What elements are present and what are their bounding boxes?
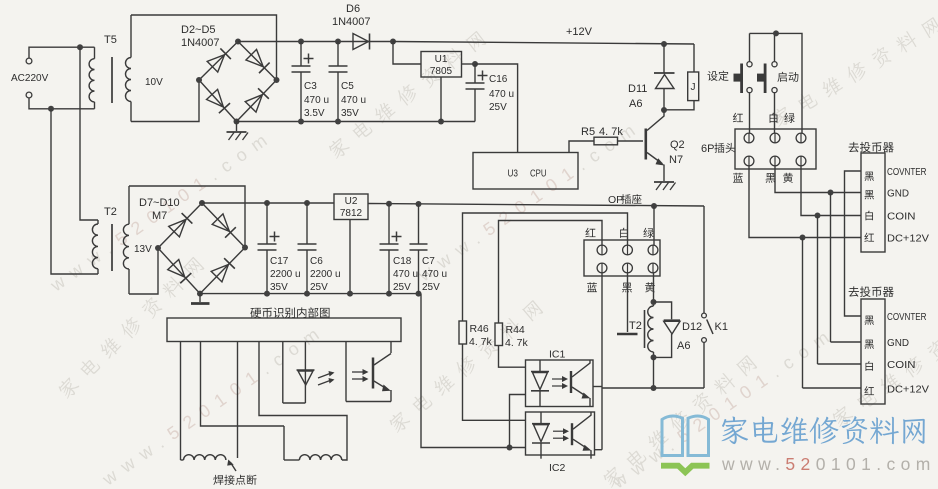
capacitor C18: [380, 204, 419, 294]
wire buttons top: [750, 33, 803, 133]
wire AC L drop: [80, 47, 98, 220]
wire U1 ground: [440, 77, 442, 122]
node C6 top: [304, 200, 310, 206]
node C17 top: [264, 200, 270, 206]
wire OP white to R46: [463, 213, 628, 321]
svg-text:C6: C6: [310, 256, 323, 267]
transformer T5: [89, 15, 163, 122]
wire START to pin white: [774, 93, 776, 134]
capacitor C7: [410, 204, 448, 294]
svg-text:T2: T2: [629, 320, 642, 332]
label OP top colors 红白绿: [585, 228, 653, 238]
svg-text:D12: D12: [682, 321, 702, 333]
svg-text:470 u: 470 u: [422, 269, 447, 280]
diode D6: [332, 3, 371, 50]
svg-text:C16: C16: [489, 74, 508, 85]
wire AC N drop: [51, 109, 98, 274]
wire coil2 left up: [283, 426, 285, 460]
svg-text:25V: 25V: [393, 282, 411, 293]
svg-text:25V: 25V: [310, 282, 328, 293]
wire COVNTER link: [845, 171, 862, 316]
wire OP black to gnd: [617, 273, 638, 334]
wire blue to IC1: [593, 386, 602, 388]
wire R44 to IC1: [499, 346, 526, 368]
svg-text:D2~D5: D2~D5: [181, 24, 216, 36]
svg-text:GND: GND: [887, 188, 909, 200]
transistor Q2: [646, 110, 685, 181]
svg-text:470 u: 470 u: [393, 269, 418, 280]
wire +12V rail: [393, 26, 694, 44]
svg-text:4. 7k: 4. 7k: [599, 126, 623, 138]
svg-text:DC+12V: DC+12V: [887, 384, 929, 396]
wire inset leg1: [181, 342, 184, 461]
regulator U2 7812: [334, 194, 368, 220]
wire 12V rail from U2: [368, 204, 704, 207]
wire OP red to R44: [499, 221, 603, 324]
node AC N junction: [48, 106, 54, 112]
wire supply1 frame: [131, 15, 277, 122]
transformer T2: [92, 186, 152, 294]
svg-text:C5: C5: [341, 81, 354, 92]
svg-text:A6: A6: [677, 340, 690, 352]
svg-text:4. 7k: 4. 7k: [469, 336, 493, 348]
svg-text:1N4007: 1N4007: [332, 16, 371, 28]
svg-text:D6: D6: [346, 3, 360, 15]
capacitor C3: [292, 42, 330, 122]
svg-text:AC220V: AC220V: [11, 73, 49, 84]
wire R46 to IC2: [463, 344, 526, 420]
wire common to IC1: [510, 395, 526, 448]
wire U2 ground: [349, 220, 351, 294]
wire SET to pin red: [749, 93, 751, 134]
wire relay rail: [602, 387, 704, 389]
svg-text:+12V: +12V: [566, 26, 593, 38]
light arrows inset: [318, 371, 335, 385]
wire OP green up: [653, 206, 655, 245]
capacitor C16: [466, 64, 515, 122]
pushbutton START 启动: [757, 62, 798, 93]
label 6P bottom colors 蓝黑黄: [733, 173, 793, 183]
connector coin acceptor 1 去投币器: [849, 142, 929, 252]
svg-text:Q2: Q2: [670, 139, 685, 151]
capacitor C17: [258, 203, 301, 294]
connector coin acceptor 2 去投币器: [849, 286, 929, 404]
svg-text:4. 7k: 4. 7k: [505, 337, 529, 349]
svg-text:T5: T5: [104, 34, 117, 46]
svg-text:R5: R5: [581, 126, 595, 138]
wire 6P blue to DC+12V: [749, 166, 861, 238]
capacitor C5: [329, 42, 367, 122]
node relay top: [651, 299, 657, 305]
wire U1 output: [462, 63, 476, 65]
svg-text:COIN: COIN: [887, 211, 916, 223]
optocoupler IC1: [526, 349, 594, 407]
regulator U1 7805: [421, 52, 462, 78]
svg-text:35V: 35V: [270, 282, 288, 293]
svg-text:7805: 7805: [430, 66, 453, 77]
diode D11: [628, 44, 675, 110]
wire inset leg4: [259, 342, 347, 461]
svg-text:K1: K1: [715, 321, 728, 333]
wire inset leg3 break: [237, 342, 239, 459]
wire +V rail supply1: [238, 41, 393, 43]
AC mains source AC220V: [11, 58, 49, 98]
svg-text:DC+12V: DC+12V: [887, 233, 929, 245]
svg-text:U3: U3: [508, 169, 519, 180]
node DC12V branch: [800, 235, 806, 241]
svg-text:OP: OP: [608, 194, 623, 206]
svg-text:D7~D10: D7~D10: [139, 197, 180, 209]
svg-text:COVNTER: COVNTER: [887, 311, 927, 323]
bridge rectifier D7~D10: [139, 197, 248, 297]
svg-text:N7: N7: [669, 154, 683, 166]
node U1 out: [472, 61, 478, 67]
inductor sense coil 1: [184, 455, 226, 460]
relay coil J: [664, 44, 699, 110]
svg-text:A6: A6: [629, 98, 642, 110]
svg-text:C3: C3: [304, 81, 317, 92]
wire relay bottom down: [653, 357, 655, 388]
svg-text:25V: 25V: [489, 102, 507, 113]
ic U3 CPU: [473, 153, 578, 190]
node common branch: [507, 445, 513, 451]
node relay rail junction: [651, 385, 657, 391]
wire U1 input: [393, 42, 421, 65]
wire inset leg2: [201, 342, 285, 427]
node AC L junction: [77, 44, 83, 50]
svg-text:2200 u: 2200 u: [310, 269, 341, 280]
svg-text:GND: GND: [887, 337, 909, 349]
svg-text:470 u: 470 u: [489, 89, 514, 100]
optocoupler IC2: [526, 412, 595, 474]
wire DC12V down: [803, 238, 862, 389]
led emitter inset: [283, 342, 315, 404]
wire gnd rail supply2: [200, 291, 422, 297]
resistor R44: [495, 323, 529, 349]
connector 6P plug 6P插头: [701, 129, 816, 169]
svg-text:2200 u: 2200 u: [270, 269, 301, 280]
svg-text:35V: 35V: [341, 108, 359, 119]
wire gnd rail supply1: [237, 119, 476, 125]
node D6 cathode: [390, 39, 396, 45]
svg-text:C7: C7: [422, 256, 435, 267]
pushbutton SET 设定: [707, 62, 752, 93]
wire supply2 frame: [129, 186, 245, 294]
node D11 top: [661, 41, 667, 47]
wire 5V to CPU: [475, 64, 518, 153]
svg-text:10V: 10V: [145, 77, 163, 88]
node OP green tap: [651, 203, 657, 209]
svg-text:U1: U1: [435, 54, 448, 65]
node Q2 collector: [661, 107, 667, 113]
svg-text:470 u: 470 u: [341, 95, 366, 106]
svg-text:COVNTER: COVNTER: [887, 166, 927, 178]
wire blue to IC2: [595, 449, 603, 451]
svg-text:R46: R46: [470, 323, 489, 335]
wire AC N bottom: [29, 98, 95, 109]
wire OP blue down: [601, 273, 603, 450]
svg-text:COIN: COIN: [887, 359, 916, 371]
svg-text:C18: C18: [393, 256, 412, 267]
label OP bottom colors 蓝黑黄: [587, 282, 655, 292]
switch K1: [702, 206, 728, 388]
wire AC L top: [29, 47, 95, 58]
node C5 top: [335, 39, 341, 45]
svg-text:25V: 25V: [422, 282, 440, 293]
node GND branch: [828, 190, 834, 196]
ground Q2: [654, 182, 676, 190]
node buttons junction: [773, 30, 779, 36]
wire OP yellow to relay: [653, 273, 655, 306]
label 6P top colors 红白绿: [733, 113, 795, 123]
svg-text:6P: 6P: [701, 143, 714, 155]
resistor R5: [569, 126, 643, 153]
node relay bottom: [651, 354, 657, 360]
svg-text:U2: U2: [345, 196, 358, 207]
wire +V rail supply2: [202, 202, 334, 204]
wire 6P black to GND: [775, 166, 861, 193]
svg-text:IC1: IC1: [549, 349, 566, 361]
relay coil T2: [629, 306, 654, 357]
wire common return: [421, 294, 526, 448]
wire GND down: [831, 193, 862, 343]
svg-text:1N4007: 1N4007: [181, 37, 220, 49]
svg-text:7812: 7812: [340, 208, 363, 219]
svg-text:T2: T2: [104, 206, 117, 218]
node COIN branch: [815, 213, 821, 219]
resistor R46: [459, 321, 493, 348]
svg-text:470 u: 470 u: [304, 95, 329, 106]
node C3 top: [298, 39, 304, 45]
wire 6P yellow to COIN: [801, 166, 861, 216]
label coin recognizer title 硬币识别内部图: [250, 307, 329, 318]
svg-text:M7: M7: [152, 210, 167, 222]
ground bridge2: [191, 294, 210, 304]
wire COIN down: [818, 216, 862, 365]
svg-text:13V: 13V: [134, 244, 152, 255]
svg-text:J: J: [691, 82, 696, 93]
bridge rectifier D2~D5: [181, 24, 280, 125]
svg-text:3.5V: 3.5V: [304, 108, 325, 119]
svg-text:CPU: CPU: [530, 169, 547, 180]
svg-text:R44: R44: [506, 324, 525, 336]
svg-text:D11: D11: [628, 83, 647, 95]
diode D12: [654, 302, 703, 357]
logo watermark book icon + site name: [661, 416, 936, 476]
phototransistor inset: [346, 342, 391, 402]
svg-text:IC2: IC2: [549, 462, 566, 474]
inductor sense coil 2: [284, 455, 342, 460]
node C7 top: [416, 201, 422, 207]
box coin recognizer: [167, 318, 401, 342]
label solder break 焊接点断: [213, 460, 256, 485]
svg-text:C17: C17: [270, 256, 289, 267]
ground bridge1: [227, 122, 249, 141]
connector OP socket OP插座: [584, 194, 660, 276]
svg-text:www.520101.com: www.520101.com: [721, 454, 936, 474]
capacitor C6: [298, 203, 341, 294]
node C18 top: [386, 201, 392, 207]
